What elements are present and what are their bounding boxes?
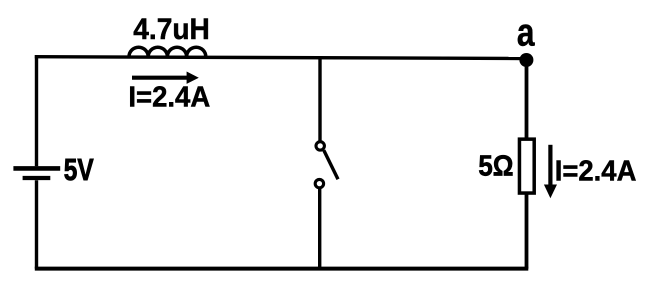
node a dot bbox=[519, 53, 533, 67]
svg-text:I=2.4A: I=2.4A bbox=[555, 155, 637, 187]
wire middle vertical lower (from switch) bbox=[318, 189, 321, 269]
svg-text:I=2.4A: I=2.4A bbox=[128, 81, 210, 113]
wire bottom horizontal bbox=[35, 267, 529, 271]
battery V1 5V bbox=[13, 168, 60, 178]
resistor R1 5 ohm bbox=[519, 139, 534, 193]
wire right vertical upper bbox=[525, 59, 529, 140]
current arrow (resistor, downward) bbox=[544, 145, 557, 198]
svg-text:5Ω: 5Ω bbox=[478, 149, 513, 181]
wire middle vertical upper (to switch) bbox=[318, 57, 321, 141]
switch S1 bbox=[315, 142, 338, 188]
wire left vertical lower bbox=[35, 180, 38, 268]
svg-text:5V: 5V bbox=[64, 152, 94, 186]
inductor L1 4.7uH bbox=[129, 47, 206, 57]
current arrow (inductor) bbox=[132, 72, 199, 84]
wire left vertical upper bbox=[35, 55, 38, 166]
svg-text:4.7uH: 4.7uH bbox=[133, 13, 210, 46]
wire top horizontal bbox=[35, 57, 527, 59]
svg-text:a: a bbox=[517, 12, 535, 55]
wire right vertical lower bbox=[525, 193, 529, 268]
